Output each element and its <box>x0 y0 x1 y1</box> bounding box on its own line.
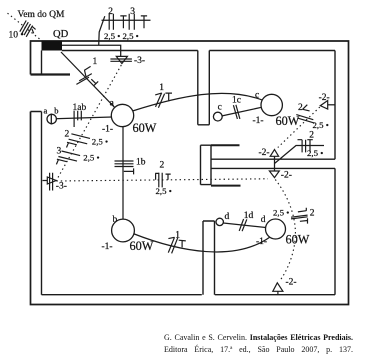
conduit marks switch c wire <box>233 105 240 119</box>
svg-text:2: 2 <box>65 129 70 139</box>
svg-text:60W: 60W <box>286 232 310 246</box>
svg-text:3: 3 <box>130 7 135 17</box>
svg-text:b: b <box>113 215 118 225</box>
svg-text:-3-: -3- <box>56 181 67 191</box>
drop symbol circuit 2 bottom <box>273 283 283 295</box>
lamp b <box>112 219 135 242</box>
svg-text:2,5 •: 2,5 • <box>307 148 323 158</box>
lamp c <box>261 94 282 115</box>
stub top-right triangle to wall <box>328 104 335 106</box>
wire between mid triangles and ceiling run <box>275 146 325 172</box>
svg-text:60W: 60W <box>133 121 157 135</box>
svg-text:60W: 60W <box>130 239 154 253</box>
dashed circuit 3 diagonal <box>56 65 121 180</box>
svg-text:1: 1 <box>175 230 180 240</box>
svg-text:-2-: -2- <box>319 93 330 103</box>
svg-text:-1-: -1- <box>102 242 113 252</box>
conduit marks feeder QM <box>20 21 33 37</box>
wire QD along top wall with drop <box>62 45 121 56</box>
svg-text:-2-: -2- <box>286 278 297 288</box>
svg-text:1b: 1b <box>136 158 146 168</box>
drop symbol circuit 2 mid up <box>270 150 278 157</box>
svg-text:-1-: -1- <box>102 124 113 134</box>
dashed circuit 2 upper right <box>278 107 320 148</box>
svg-text:-3-: -3- <box>134 56 145 66</box>
lamp a <box>111 104 133 126</box>
conduit marks callout circuit 3 <box>129 14 147 30</box>
drop symbol circuit 2 mid down <box>269 171 279 178</box>
conduit marks switch ab wire <box>74 111 81 127</box>
leader line to callout <box>99 16 105 45</box>
svg-text:2: 2 <box>310 208 315 218</box>
svg-text:1: 1 <box>93 57 98 67</box>
svg-text:a: a <box>44 106 48 116</box>
svg-text:3: 3 <box>57 146 62 156</box>
svg-text:2: 2 <box>108 7 113 17</box>
door leaf lower right room <box>211 185 241 187</box>
wall interior pillar <box>201 145 212 184</box>
conduit marks dashed diag group 2 <box>69 134 90 144</box>
wall left cap below door <box>31 112 42 295</box>
wall right inner edge <box>334 51 336 295</box>
svg-text:2: 2 <box>298 103 303 113</box>
switch ab <box>47 114 56 123</box>
wire QD to lamp a <box>61 52 115 108</box>
svg-text:-1-: -1- <box>256 237 267 247</box>
wire lamp b to lamp d <box>133 234 270 252</box>
svg-text:60W: 60W <box>276 114 300 128</box>
wire switch ab to lamp a <box>55 117 112 119</box>
callout stub line <box>102 19 151 21</box>
conduit marks dashed upper right <box>296 115 314 124</box>
conduit marks dashed near lamp d <box>291 215 308 219</box>
dashed feeder from QM <box>8 13 42 40</box>
wall left inner edge upper <box>41 51 43 75</box>
wall bottom inner edge <box>42 294 336 296</box>
svg-text:-1-: -1- <box>253 116 264 126</box>
svg-text:b: b <box>54 106 58 116</box>
distribution board QD <box>42 41 63 51</box>
conduit marks switch d wire <box>239 219 247 231</box>
svg-text:Vem do QM: Vem do QM <box>18 10 66 20</box>
conduit marks callout circuit 2 <box>109 14 126 30</box>
svg-text:d: d <box>225 212 230 222</box>
svg-text:c: c <box>255 90 259 100</box>
switch d <box>216 218 223 225</box>
wall outer rectangle <box>31 41 349 305</box>
svg-text:2,5 •: 2,5 • <box>313 120 329 130</box>
svg-text:1ab: 1ab <box>73 103 87 113</box>
dashed circuit 2 lower right curve <box>275 180 295 282</box>
conduit marks ceiling run mid <box>298 140 313 153</box>
conduit marks wire a-c <box>155 93 164 108</box>
svg-text:1c: 1c <box>232 95 241 105</box>
svg-text:-2-: -2- <box>259 148 270 158</box>
caption line 2 <box>164 344 353 356</box>
wire switch c to lamp c <box>222 107 262 116</box>
svg-text:2,5 •: 2,5 • <box>92 137 108 147</box>
wire switch d to lamp d <box>223 223 265 228</box>
wall interior vertical lower <box>203 221 215 295</box>
drop symbol circuit 2 top right <box>320 101 327 110</box>
conduit marks wire b-d <box>168 237 178 253</box>
wall interior vertical upper <box>198 51 210 125</box>
svg-text:QD: QD <box>53 29 69 40</box>
conduit marks lamp a-b wire 1b <box>115 161 134 167</box>
door leaf upper right room <box>211 144 240 146</box>
svg-text:10 •: 10 • <box>9 31 24 41</box>
wall interior horizontal mid <box>211 159 335 168</box>
conduit marks dashed horizontal <box>159 173 162 188</box>
svg-text:c: c <box>218 103 222 113</box>
wire lamp a to lamp c <box>133 93 264 111</box>
svg-text:1d: 1d <box>244 211 254 221</box>
svg-text:-2-: -2- <box>281 171 292 181</box>
dashed circuit horizontal floor run <box>56 179 268 181</box>
stub left wall to triangle <box>43 180 48 182</box>
svg-text:2: 2 <box>160 160 165 170</box>
switch c <box>213 112 222 121</box>
svg-text:d: d <box>261 215 266 225</box>
door leaf left wall <box>31 73 71 75</box>
svg-text:2,5 •: 2,5 • <box>83 152 99 162</box>
caption line 1 <box>164 332 353 344</box>
wall top inner edge <box>62 50 335 52</box>
wire lamp a to lamp b <box>122 127 124 220</box>
svg-text:2,5 •: 2,5 • <box>156 186 172 196</box>
svg-text:1: 1 <box>159 83 164 93</box>
svg-text:2,5 • 2,5 •: 2,5 • 2,5 • <box>104 31 139 41</box>
lamp d <box>266 219 286 239</box>
drop symbol circuit 3 at top <box>110 59 131 61</box>
svg-text:2: 2 <box>309 131 314 141</box>
conduit marks dashed diag group 3 <box>58 151 80 161</box>
drop symbol circuit 3 at left wall <box>50 173 53 191</box>
svg-text:2,5 •: 2,5 • <box>273 207 289 217</box>
conduit marks wire QD-a <box>76 74 91 85</box>
